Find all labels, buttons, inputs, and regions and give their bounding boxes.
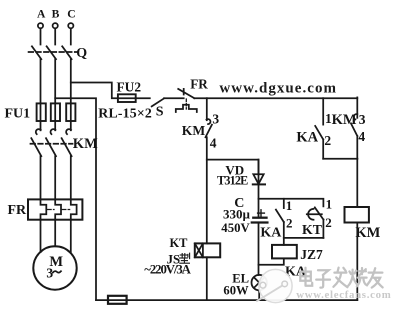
contactor KM main contact B xyxy=(46,129,56,156)
wire down to KM coil xyxy=(356,159,358,207)
glyph xing (type) xyxy=(180,253,190,263)
svg-text:4: 4 xyxy=(210,135,217,150)
fuse FU2 xyxy=(118,94,136,102)
svg-text:330µ: 330µ xyxy=(223,207,251,222)
wire S to FR contact xyxy=(164,97,184,99)
diode VD xyxy=(253,160,265,185)
wire FR box to motor B xyxy=(54,220,56,247)
wire KM aux to KT coil rail xyxy=(206,137,208,243)
switch Q linkage (dashed) xyxy=(29,51,78,53)
svg-text:2: 2 xyxy=(286,215,293,230)
svg-text:FR: FR xyxy=(190,77,208,92)
switch Q pole B blade xyxy=(47,46,56,59)
svg-text:450V: 450V xyxy=(221,221,250,235)
svg-text:JZ7: JZ7 xyxy=(300,247,323,262)
svg-text:FU2: FU2 xyxy=(117,79,142,94)
svg-text:2: 2 xyxy=(324,133,331,148)
svg-text:KM: KM xyxy=(182,123,206,138)
node A terminal xyxy=(38,23,43,28)
svg-text:www.dgxue.com: www.dgxue.com xyxy=(219,81,336,97)
svg-text:KT: KT xyxy=(302,222,322,237)
capacitor C 330u 450V xyxy=(252,210,268,223)
wire KM coil to bottom bus xyxy=(356,223,358,301)
svg-text:B: B xyxy=(52,7,60,20)
wire branch to KA and KT contacts xyxy=(259,199,324,207)
wire KA/KM bottoms join xyxy=(323,158,357,160)
wire KM to FR box B xyxy=(54,156,56,199)
switch Q pole C blade xyxy=(62,46,71,59)
svg-text:3: 3 xyxy=(212,112,219,127)
wire KT coil to bottom bus xyxy=(206,257,208,300)
relay contact KA (top right, pins 1-2) xyxy=(315,98,323,159)
svg-text:Q: Q xyxy=(76,46,87,61)
wire KM to FR box A xyxy=(40,156,42,199)
timer contact KT (pins 1-2, delay close) xyxy=(307,207,324,238)
label 3~ xyxy=(46,266,61,281)
wire EL to bottom bus xyxy=(258,290,260,300)
svg-text:3: 3 xyxy=(359,112,366,127)
relay coil KA xyxy=(272,245,297,259)
svg-text:T312E: T312E xyxy=(217,174,248,188)
relay contact KA (pins 1-2) xyxy=(276,199,284,245)
watermark elecfans logo xyxy=(257,269,292,302)
thermal relay FR NC contact xyxy=(178,89,194,98)
FR heater phase C xyxy=(71,199,77,219)
svg-text:2: 2 xyxy=(325,215,332,230)
contactor KM main contact C xyxy=(62,129,72,156)
wire KT contact bottom join xyxy=(284,237,324,239)
contactor KM aux contact right (pins 3-4) xyxy=(351,114,357,159)
svg-text:KA: KA xyxy=(296,130,318,146)
svg-text:4: 4 xyxy=(358,129,365,144)
svg-text:C: C xyxy=(67,7,75,20)
motor M 3~ xyxy=(33,246,76,289)
contactor coil KM xyxy=(345,207,369,223)
svg-text:KA: KA xyxy=(260,226,282,241)
wire FU2 to switch S xyxy=(136,97,150,99)
svg-text:KM: KM xyxy=(332,112,357,128)
lamp EL 60W xyxy=(252,275,267,290)
svg-text:~220V/3A: ~220V/3A xyxy=(144,263,191,277)
thermal relay FR box xyxy=(28,199,82,219)
wire junction to diode column xyxy=(207,160,259,175)
contactor KM main contact A xyxy=(31,129,41,156)
svg-text:KT: KT xyxy=(170,236,189,250)
timer coil KT (JS type) xyxy=(195,243,220,257)
KM main linkage (dashed) xyxy=(31,143,73,145)
wire tap phase B to left control rail xyxy=(55,98,96,300)
wire capacitor to lamp EL xyxy=(258,223,260,276)
wire Q to FU1 phase C xyxy=(70,59,72,130)
node B terminal xyxy=(53,23,58,28)
wire FR to top bus xyxy=(194,97,357,99)
svg-text:FU1: FU1 xyxy=(5,107,31,122)
fuse FU1 phase C xyxy=(66,103,75,121)
FR heater linkage dashes xyxy=(48,209,70,211)
fuse FU1 phase B xyxy=(51,103,60,121)
svg-text:60W: 60W xyxy=(223,284,249,298)
switch S blade xyxy=(152,98,164,106)
wire Q to FU1 phase A xyxy=(40,59,42,130)
wire diode to capacitor xyxy=(258,184,260,216)
wire phase B to switch Q xyxy=(54,28,56,44)
wire top bus corner down right rail xyxy=(356,97,358,117)
wire KA coil bottom jog to lamp column xyxy=(259,258,284,264)
svg-text:A: A xyxy=(37,7,46,20)
svg-text:RL-15×2: RL-15×2 xyxy=(98,105,152,120)
wire KM to FR box C xyxy=(70,156,72,199)
svg-text:www.elecfans.com: www.elecfans.com xyxy=(296,289,391,301)
fuse FU1 phase A xyxy=(37,103,46,121)
thermal relay FR heater element xyxy=(176,99,197,112)
wire FR box to motor C xyxy=(70,220,72,253)
svg-text:FR: FR xyxy=(8,203,28,218)
FR heater phase A xyxy=(41,199,47,219)
contactor KM aux contact left (pins 3-4) xyxy=(206,98,212,137)
svg-text:1: 1 xyxy=(286,198,293,213)
wire phase A to switch Q xyxy=(40,28,42,44)
switch Q pole A blade xyxy=(32,46,41,59)
wire phase C to switch Q xyxy=(70,28,72,44)
svg-text:KM: KM xyxy=(73,136,98,152)
svg-text:KM: KM xyxy=(355,225,380,241)
node C terminal xyxy=(68,23,73,28)
bottom bus wire xyxy=(96,299,357,301)
wire FR box to motor A xyxy=(40,220,42,252)
wire tap phase C to FU2 xyxy=(71,83,118,99)
svg-text:1: 1 xyxy=(326,196,333,211)
FR heater phase B xyxy=(55,199,61,219)
wire Q to FU1 phase B xyxy=(54,59,56,130)
svg-text:S: S xyxy=(156,105,164,120)
fuse on bottom bus xyxy=(108,296,127,304)
watermark text dianzifashaoyou xyxy=(300,268,382,288)
